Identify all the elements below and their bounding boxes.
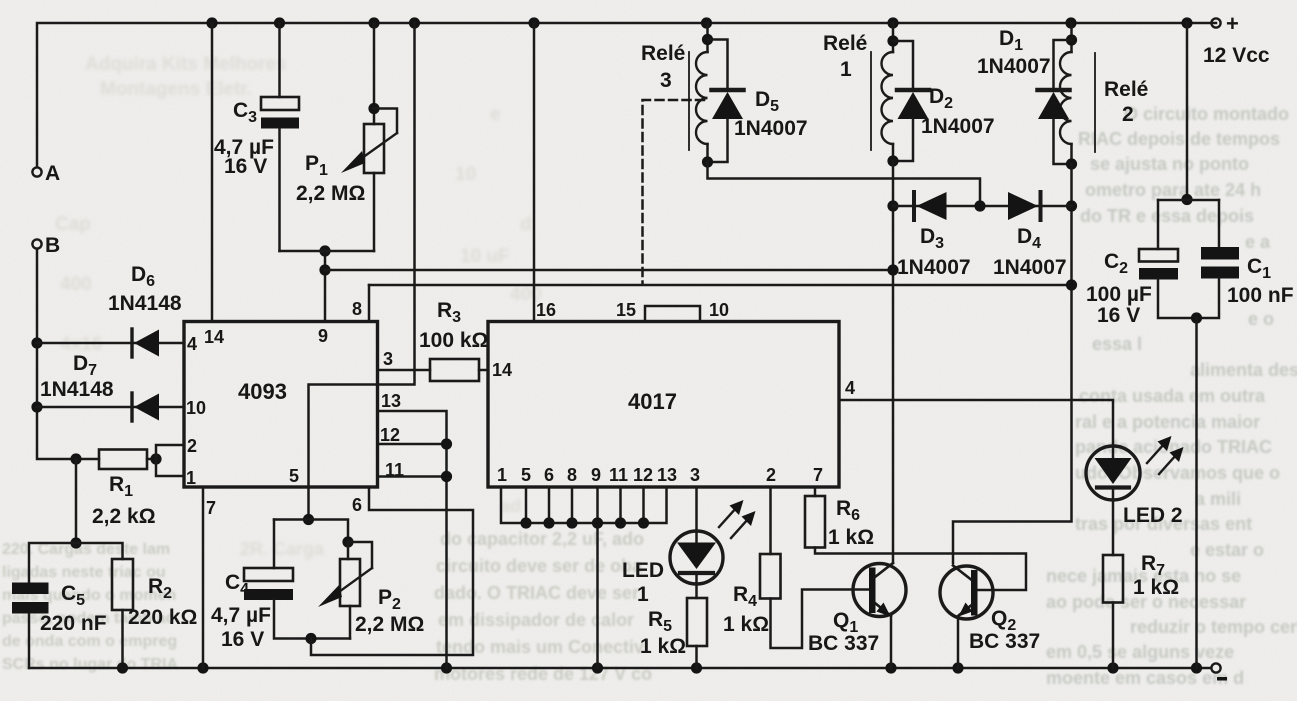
node dot pin9/P1/C3	[319, 245, 330, 256]
wire 4017 pin2 to R4	[769, 487, 772, 554]
svg-text:Montagens Eletr.: Montagens Eletr.	[100, 79, 252, 100]
svg-text:e o: e o	[1248, 309, 1274, 329]
LED LED1	[622, 531, 723, 606]
node dot R1 right	[150, 453, 161, 464]
wire 4093 pin3 to R3	[378, 369, 431, 372]
node dot rele2 bottom	[1066, 158, 1077, 169]
svg-text:6: 6	[352, 495, 362, 515]
diode D3 1N4007	[897, 192, 971, 279]
svg-text:13: 13	[381, 391, 401, 411]
terminal minus	[1211, 663, 1227, 680]
svg-text:em 0,5 se alguns veze: em 0,5 se alguns veze	[1046, 642, 1234, 662]
svg-text:1N4007: 1N4007	[734, 117, 808, 140]
node bus junction dots	[206, 17, 1192, 28]
svg-text:1: 1	[840, 58, 852, 81]
svg-text:9: 9	[318, 326, 328, 346]
node dot C4/P2 bottom	[305, 633, 316, 644]
resistor R4 1k	[723, 554, 869, 648]
capacitor C1 100nF	[1197, 200, 1294, 318]
svg-text:14: 14	[492, 360, 512, 380]
svg-text:B: B	[45, 234, 60, 257]
svg-text:220 kΩ: 220 kΩ	[128, 606, 197, 629]
wire 4093 pin14 VDD riser	[211, 23, 214, 322]
svg-text:12: 12	[380, 425, 400, 445]
node dot B/D6	[31, 337, 42, 348]
svg-text:1: 1	[637, 583, 649, 606]
svg-text:4017: 4017	[628, 389, 677, 414]
svg-text:reduzir o tempo certo: reduzir o tempo certo	[1130, 617, 1297, 637]
transistor Q1 BC337	[808, 563, 906, 668]
IC U2 4017	[488, 300, 855, 487]
svg-text:1N4007: 1N4007	[993, 256, 1067, 279]
svg-text:do capacitor 2,2 uF, ado: do capacitor 2,2 uF, ado	[440, 529, 644, 549]
wire D6 anode-cathode	[37, 342, 184, 345]
svg-text:e: e	[490, 104, 501, 125]
wire R1 to pins 1,2 bracket	[156, 445, 184, 476]
capacitor C3 4,7uF	[214, 23, 299, 251]
wire 4017 ground pins bus	[501, 487, 667, 668]
svg-text:circuito deve ser de oba: circuito deve ser de oba	[436, 556, 643, 576]
svg-text:1N4007: 1N4007	[921, 115, 995, 138]
svg-text:1: 1	[497, 465, 507, 485]
svg-text:2,2 MΩ: 2,2 MΩ	[355, 613, 424, 636]
node ground dots	[117, 662, 1202, 673]
svg-text:e estar o: e estar o	[1190, 540, 1264, 560]
svg-text:1N4007: 1N4007	[897, 256, 971, 279]
wire top +12V bus	[37, 23, 1216, 167]
svg-text:A: A	[45, 162, 60, 185]
node dot D4 right	[1066, 200, 1077, 211]
svg-text:16 V: 16 V	[1097, 304, 1140, 327]
capacitor C4 4,7uF	[211, 520, 350, 652]
svg-text:1 kΩ: 1 kΩ	[1133, 576, 1179, 599]
svg-text:ligadas neste triac ou: ligadas neste triac ou	[2, 564, 166, 581]
svg-text:10: 10	[709, 300, 729, 320]
svg-text:10: 10	[186, 398, 206, 418]
node dot B/D7	[31, 401, 42, 412]
svg-text:LED 2: LED 2	[1123, 504, 1183, 527]
svg-text:6: 6	[544, 465, 554, 485]
svg-text:alimenta dessa: alimenta dessa	[1190, 360, 1297, 380]
wire pin5 node to C4 and P2	[274, 520, 348, 543]
diode D5 1N4007	[708, 40, 808, 163]
svg-text:14: 14	[204, 327, 224, 347]
diode D6 1N4148	[108, 263, 182, 357]
svg-text:16: 16	[536, 300, 556, 320]
svg-text:Adquira Kits Melhores: Adquira Kits Melhores	[85, 54, 287, 75]
relay coil Rele 2	[1060, 23, 1148, 164]
svg-text:3: 3	[660, 69, 672, 92]
svg-text:11: 11	[609, 465, 628, 485]
node dot D3/D4 mid	[974, 200, 985, 211]
wire pin8 net to relay2 line	[369, 284, 1071, 287]
node dot C1/C2 ground	[1191, 312, 1202, 323]
svg-text:d: d	[520, 214, 532, 235]
svg-text:ral e a potencia maior: ral e a potencia maior	[1075, 412, 1260, 432]
LED LED2	[1086, 446, 1183, 555]
node dot rele1 bottom	[887, 155, 898, 166]
svg-text:1 kΩ: 1 kΩ	[723, 613, 769, 636]
svg-text:8: 8	[567, 465, 577, 485]
potentiometer P1 2,2M	[296, 23, 397, 251]
svg-text:BC 337: BC 337	[969, 630, 1040, 653]
diode D2 1N4007	[893, 41, 995, 161]
resistor R6 1k	[805, 496, 1026, 590]
svg-text:9: 9	[591, 465, 601, 485]
svg-text:2,2 kΩ: 2,2 kΩ	[92, 505, 156, 528]
svg-text:5: 5	[521, 465, 531, 485]
relay coil Rele 3	[641, 23, 713, 162]
wire ground bus	[29, 667, 1211, 670]
svg-text:Cap: Cap	[55, 214, 91, 235]
svg-text:Relé: Relé	[1104, 78, 1148, 101]
svg-text:do TR e essa depois: do TR e essa depois	[1080, 206, 1254, 226]
svg-text:RIAC depois de tempos: RIAC depois de tempos	[1078, 129, 1280, 149]
node dot C5/R2	[70, 537, 81, 548]
capacitor C5 220nF	[12, 582, 107, 668]
wire pins 11,12,13 tie	[378, 411, 447, 668]
svg-text:16 V: 16 V	[224, 155, 267, 178]
transistor Q2 BC337 mirrored	[940, 566, 1040, 669]
svg-text:Relé: Relé	[823, 32, 867, 55]
svg-text:1 kΩ: 1 kΩ	[828, 526, 874, 549]
svg-text:1: 1	[186, 468, 196, 488]
wire rele3 bottom to D3/D4 node	[708, 162, 981, 206]
wire node to C5	[29, 543, 76, 582]
resistor R1 2,2k	[92, 450, 156, 529]
node dot pin9/wire270	[319, 264, 330, 275]
svg-text:LED: LED	[622, 559, 664, 582]
svg-text:O circuito montado: O circuito montado	[1124, 104, 1289, 124]
svg-text:100 µF: 100 µF	[1086, 283, 1152, 306]
LED1 light arrows	[719, 500, 756, 538]
node dot wire270 end	[887, 264, 898, 275]
IC U1 4093	[184, 299, 404, 518]
wire 4017 pin16 riser	[533, 23, 536, 322]
svg-text:a mili: a mili	[1195, 489, 1241, 509]
svg-text:conta usada em outra: conta usada em outra	[1079, 386, 1266, 406]
node dot pin8 wire end	[1066, 279, 1077, 290]
svg-text:100 kΩ: 100 kΩ	[419, 329, 488, 352]
svg-text:12: 12	[633, 465, 653, 485]
svg-text:ometro para ate 24 h: ometro para ate 24 h	[1085, 180, 1261, 200]
capacitor C2 100uF	[1086, 23, 1219, 327]
svg-text:5: 5	[289, 466, 299, 486]
wire rele2/D4/Q2 collector line	[953, 164, 1072, 563]
svg-text:3: 3	[690, 465, 700, 485]
svg-text:se ajusta no ponto: se ajusta no ponto	[1090, 154, 1249, 174]
svg-text:7: 7	[813, 465, 823, 485]
svg-text:2: 2	[766, 465, 776, 485]
LED2 light arrows	[1147, 436, 1184, 474]
wire 4093 pin9 riser	[324, 251, 327, 322]
wire D7 anode-cathode	[37, 406, 184, 409]
wire D3 D4 row	[893, 205, 1072, 208]
svg-text:13: 13	[657, 465, 677, 485]
node dot rele3 bottom	[702, 156, 713, 167]
svg-text:4093: 4093	[238, 379, 287, 404]
svg-text:4: 4	[187, 334, 197, 354]
svg-text:Relé: Relé	[641, 42, 685, 65]
wire node to R2	[76, 543, 123, 559]
svg-text:ad: ad	[500, 496, 521, 516]
relay coil Rele 1	[823, 23, 899, 161]
svg-text:essa l: essa l	[1092, 334, 1142, 354]
resistor R5 1k	[640, 598, 707, 668]
svg-text:2R. Carga: 2R. Carga	[240, 539, 325, 559]
wire dashed relay3 contact link	[643, 100, 705, 284]
svg-text:10 uF: 10 uF	[460, 246, 510, 267]
resistor R3 100k	[419, 299, 488, 381]
svg-text:+: +	[1226, 11, 1239, 36]
svg-text:1N4148: 1N4148	[108, 292, 182, 315]
node dot pin12	[441, 438, 452, 449]
svg-text:dado. O TRIAC deve ser: dado. O TRIAC deve ser	[434, 583, 639, 603]
svg-text:e a: e a	[1245, 232, 1271, 252]
wire C4/P2 bottom to pin6	[311, 487, 473, 655]
resistor R7 1k	[1103, 552, 1179, 668]
wire +12 riser to pin5 net	[309, 23, 415, 520]
svg-text:100 nF: 100 nF	[1227, 284, 1294, 307]
node dot P2 top	[342, 536, 353, 547]
node dots 4017 ground bus	[520, 517, 649, 528]
svg-text:4: 4	[845, 378, 855, 398]
svg-text:400: 400	[60, 274, 92, 295]
svg-text:1 kΩ: 1 kΩ	[640, 635, 686, 658]
svg-text:12 Vcc: 12 Vcc	[1203, 44, 1270, 67]
svg-text:2: 2	[1122, 103, 1134, 126]
diode D7 1N4148	[40, 352, 159, 421]
terminal B	[32, 234, 60, 257]
svg-text:2,2 MΩ: 2,2 MΩ	[296, 182, 365, 205]
diode D1 1N4007	[977, 27, 1072, 164]
svg-text:220 nF: 220 nF	[40, 612, 107, 635]
svg-text:1N4007: 1N4007	[977, 55, 1051, 78]
svg-text:3: 3	[383, 349, 393, 369]
wire C3-P1 bottom link	[280, 250, 375, 253]
diode D4 1N4007	[993, 192, 1067, 279]
resistor R2 220k	[112, 559, 197, 668]
svg-text:8: 8	[352, 299, 362, 319]
wire pin9 net to relay1 line	[325, 269, 893, 272]
wire 4093 pin8 stub	[368, 285, 371, 322]
wire C1/C2 ground riser	[1195, 318, 1198, 668]
wire 4017 pin3 to LED1	[695, 487, 698, 531]
svg-text:16 V: 16 V	[221, 628, 264, 651]
wire rele1/D3/Q1 collector line	[892, 161, 895, 563]
wire R1 left down to C5/R2 node	[75, 459, 78, 543]
svg-text:em dissipador de calor: em dissipador de calor	[438, 610, 634, 630]
svg-text:4,7 µF: 4,7 µF	[211, 604, 271, 627]
svg-text:10: 10	[455, 164, 476, 185]
svg-text:1N4148: 1N4148	[40, 378, 114, 401]
terminal A	[32, 162, 60, 185]
terminal +12Vcc	[1203, 11, 1270, 67]
wire B riser to R1	[37, 249, 99, 459]
node dot R1 left	[70, 453, 81, 464]
wire 4017 pins15-10 jumper	[645, 306, 700, 322]
wire 4017 pin4 to LED2	[839, 400, 1113, 446]
node dot pin5/C4/P2	[303, 514, 314, 525]
svg-text:15: 15	[616, 300, 636, 320]
wire 4017 pin7 to R6	[814, 487, 817, 496]
wire 4093 pin7 ground	[202, 487, 205, 668]
svg-text:2: 2	[187, 436, 197, 456]
potentiometer P2 2,2M	[318, 542, 424, 639]
node dot pin11	[441, 471, 452, 482]
svg-text:7: 7	[206, 498, 216, 518]
svg-text:BC 337: BC 337	[808, 632, 879, 655]
node dot D3 left	[887, 200, 898, 211]
